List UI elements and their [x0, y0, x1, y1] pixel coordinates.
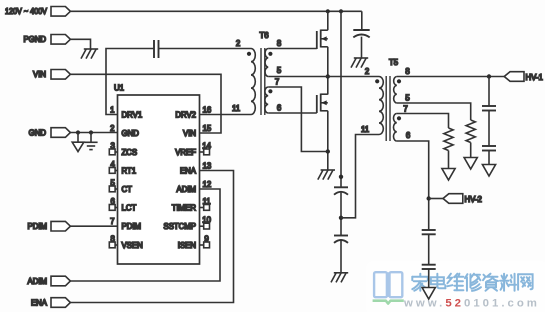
- ground arrow (HV-2): [422, 288, 435, 300]
- svg-text:13: 13: [203, 161, 212, 170]
- junction HV-1 / filter branch: [487, 74, 491, 78]
- ground chassis (PGND): [84, 48, 98, 50]
- transistor Q1 (high-side MOSFET): [316, 31, 318, 49]
- svg-text:3: 3: [111, 141, 115, 150]
- svg-text:16: 16: [203, 105, 212, 114]
- node PGND input: [51, 35, 70, 45]
- transformer T6 secondary winding A (pins 8-5): [265, 49, 268, 77]
- svg-text:U1: U1: [114, 84, 124, 93]
- capacitor input filter: [361, 11, 363, 30]
- svg-text:HV-2: HV-2: [465, 195, 482, 204]
- wire coupling capacitor to T6 pin 2: [159, 48, 252, 50]
- wire Q1 source to switch node to Q2 drain: [327, 47, 329, 95]
- node GND input: [51, 128, 70, 138]
- svg-text:DRV1: DRV1: [122, 111, 143, 120]
- wire T6 pin 6 to Q2 gate: [268, 112, 317, 114]
- svg-text:DRV2: DRV2: [175, 111, 196, 120]
- svg-text:ENA: ENA: [31, 299, 48, 308]
- wire HV-2 tap to flag: [429, 198, 443, 200]
- svg-text:10: 10: [202, 216, 211, 225]
- svg-text:TIMER: TIMER: [172, 204, 197, 213]
- wire PGND to chassis ground: [70, 39, 90, 49]
- transformer T5 secondary winding A (pins 8-5): [394, 77, 397, 103]
- svg-text:RT1: RT1: [122, 167, 137, 176]
- wire C-d to ground arrow: [488, 151, 490, 165]
- wire C-e to C-f: [428, 234, 430, 264]
- wire C-a to C-b (resonant node): [340, 193, 342, 236]
- svg-text:VREF: VREF: [175, 148, 196, 157]
- watermark text 家电维修资料网 (stylized): [412, 274, 532, 291]
- node ENA input: [51, 298, 70, 308]
- svg-text:120V ~ 400V: 120V ~ 400V: [5, 7, 48, 16]
- svg-text:7: 7: [110, 217, 114, 226]
- svg-text:PDIM: PDIM: [28, 222, 48, 231]
- junction GND / signal ground: [89, 130, 93, 134]
- svg-text:T5: T5: [389, 58, 399, 67]
- svg-text:2: 2: [236, 39, 240, 48]
- capacitor resonant C-a: [334, 186, 348, 188]
- transformer T5 secondary B phase dot: [397, 116, 401, 120]
- svg-text:ISEN: ISEN: [178, 241, 196, 250]
- transformer T5 secondary winding B (pins 7-6): [393, 114, 396, 142]
- wire T5 pin 6 to HV-2 branch: [397, 141, 429, 230]
- svg-text:CT: CT: [122, 185, 133, 194]
- wire T5 pin 7 to resistor R-b: [397, 114, 449, 129]
- capacitor resonant C-b: [334, 235, 348, 237]
- svg-text:ADIM: ADIM: [28, 277, 48, 286]
- junction resonant branch top: [339, 175, 343, 179]
- wire U1 pin 16 DRV2 to T6 pin 11: [200, 114, 252, 116]
- transformer T5 primary winding (pins 2-11): [379, 77, 383, 135]
- svg-text:VSEN: VSEN: [122, 241, 143, 250]
- svg-text:15: 15: [203, 124, 212, 133]
- wire T5 pin 5 to resistor R-a: [397, 103, 471, 120]
- ground arrow (R-b): [442, 169, 455, 181]
- transformer T5 primary phase dot: [375, 79, 379, 83]
- transformer T5 core: [385, 76, 387, 141]
- wire C-f to ground arrow: [428, 269, 430, 288]
- wire HV-1 branch to capacitor C-c: [488, 77, 490, 107]
- wire HV rail: [70, 10, 361, 12]
- ground chassis (resonant divider): [334, 272, 348, 274]
- svg-text:5: 5: [405, 94, 410, 103]
- wire GND to U1 pin 2: [70, 132, 117, 134]
- node ADIM input: [51, 276, 70, 286]
- svg-text:6: 6: [406, 131, 410, 140]
- svg-text:SSTCMP: SSTCMP: [164, 222, 197, 231]
- node HV-2 output: [443, 194, 463, 204]
- svg-text:2: 2: [365, 67, 369, 76]
- svg-text:9: 9: [204, 234, 208, 243]
- node 120V ~ 400V input: [51, 7, 70, 17]
- junction rail / Q1 drain: [326, 9, 330, 13]
- svg-text:11: 11: [361, 125, 369, 134]
- wire ENA to U1 pin 13: [70, 171, 233, 303]
- ground earth (triangle): [77, 133, 79, 143]
- svg-text:LCT: LCT: [122, 204, 137, 213]
- junction Q2 source / T6 pin 7: [326, 149, 330, 153]
- transformer T6 primary phase dot: [247, 52, 251, 56]
- watermark background: [366, 261, 545, 312]
- svg-text:5: 5: [277, 66, 282, 75]
- transformer T6 primary winding (pins 2-11): [251, 49, 255, 115]
- node VIN input: [51, 70, 70, 80]
- wire Q2 source to chassis ground: [327, 111, 329, 170]
- junction HV-2 tap: [427, 196, 431, 200]
- svg-text:HV-1: HV-1: [526, 73, 543, 82]
- svg-text:12: 12: [203, 180, 212, 189]
- svg-text:14: 14: [202, 141, 211, 150]
- transformer T6 secondary winding B (pins 7-6): [265, 87, 268, 113]
- capacitor coupling C (DRV1 to T6 pin 2): [153, 40, 155, 58]
- svg-text:GND: GND: [122, 129, 140, 138]
- svg-text:6: 6: [277, 104, 281, 113]
- svg-text:ADIM: ADIM: [177, 185, 197, 194]
- svg-text:7: 7: [403, 105, 407, 114]
- op-amp U1 LED driver IC body: [118, 95, 200, 264]
- transformer T6 core: [260, 48, 262, 115]
- svg-text:GND: GND: [29, 129, 47, 138]
- junction GND / earth ground: [76, 130, 80, 134]
- wire HV rail to resonant capacitor C-a: [340, 11, 342, 187]
- wire C-c to C-d: [488, 111, 490, 147]
- wire ADIM to U1 pin 12: [70, 189, 220, 281]
- ground arrow (HV-1 filter): [482, 165, 495, 177]
- wire switch node to T5 pin 2: [268, 76, 379, 78]
- svg-text:7: 7: [275, 78, 279, 87]
- svg-text:PDIM: PDIM: [122, 222, 142, 231]
- resistor R-b: [444, 128, 453, 151]
- svg-text:PGND: PGND: [23, 35, 46, 44]
- wire resonant node to T5 pin 11: [341, 135, 379, 218]
- ground signal (bars): [90, 133, 92, 143]
- svg-text:8: 8: [111, 234, 115, 243]
- svg-text:2: 2: [110, 124, 114, 133]
- wire Q1 drain to HV rail: [327, 11, 329, 30]
- ground chassis (input filter): [354, 57, 368, 59]
- svg-text:1: 1: [110, 105, 114, 114]
- node PDIM input: [51, 221, 70, 231]
- wire PDIM to U1 pin 7: [70, 225, 117, 227]
- ground arrow (R-a): [464, 158, 477, 170]
- wire VIN to U1 pin 15: [70, 74, 221, 133]
- wire R-b to ground arrow: [448, 151, 450, 169]
- transistor Q2 (low-side MOSFET): [316, 95, 318, 113]
- transformer T6 secondary A phase dot: [268, 52, 272, 56]
- svg-text:T6: T6: [260, 31, 269, 40]
- wire R-a to ground arrow: [470, 143, 472, 158]
- capacitor C-f (HV-2 lower): [422, 264, 436, 266]
- node HV-1 output: [504, 72, 524, 82]
- transformer T5 secondary A phase dot: [397, 79, 401, 83]
- capacitor C-e (HV-2 upper): [422, 229, 436, 231]
- svg-text:VIN: VIN: [183, 129, 196, 138]
- wire T6 pin 8 to Q1 gate: [268, 48, 317, 50]
- svg-text:6: 6: [111, 197, 115, 206]
- svg-text:5: 5: [111, 178, 116, 187]
- watermark book icon: [374, 272, 402, 297]
- svg-text:VIN: VIN: [33, 70, 46, 79]
- svg-text:8: 8: [405, 67, 409, 76]
- resistor R-a: [466, 120, 475, 143]
- svg-text:4: 4: [111, 160, 116, 169]
- svg-text:8: 8: [277, 39, 281, 48]
- capacitor C-c (HV-1 filter upper): [482, 105, 496, 107]
- junction switch node: [326, 74, 330, 78]
- svg-text:ZCS: ZCS: [122, 148, 138, 157]
- ground chassis (half-bridge return): [321, 169, 335, 171]
- capacitor C-d (HV-1 filter lower): [482, 145, 496, 147]
- wire U1 pin 1 DRV1 to coupling capacitor: [106, 49, 154, 115]
- junction resonant node / T5 pin 11: [339, 216, 343, 220]
- junction rail / resonant branch: [339, 9, 343, 13]
- wire T5 pin 8 to HV-1: [397, 76, 504, 78]
- transformer T6 secondary B phase dot: [268, 89, 272, 93]
- wire T6 pin 7 to Q2 source node: [268, 87, 328, 152]
- svg-text:www.520101.com: www.520101.com: [403, 298, 540, 310]
- svg-text:11: 11: [203, 197, 211, 206]
- svg-text:11: 11: [232, 104, 240, 113]
- wire C-b to chassis ground: [340, 241, 342, 273]
- svg-text:ENA: ENA: [180, 167, 197, 176]
